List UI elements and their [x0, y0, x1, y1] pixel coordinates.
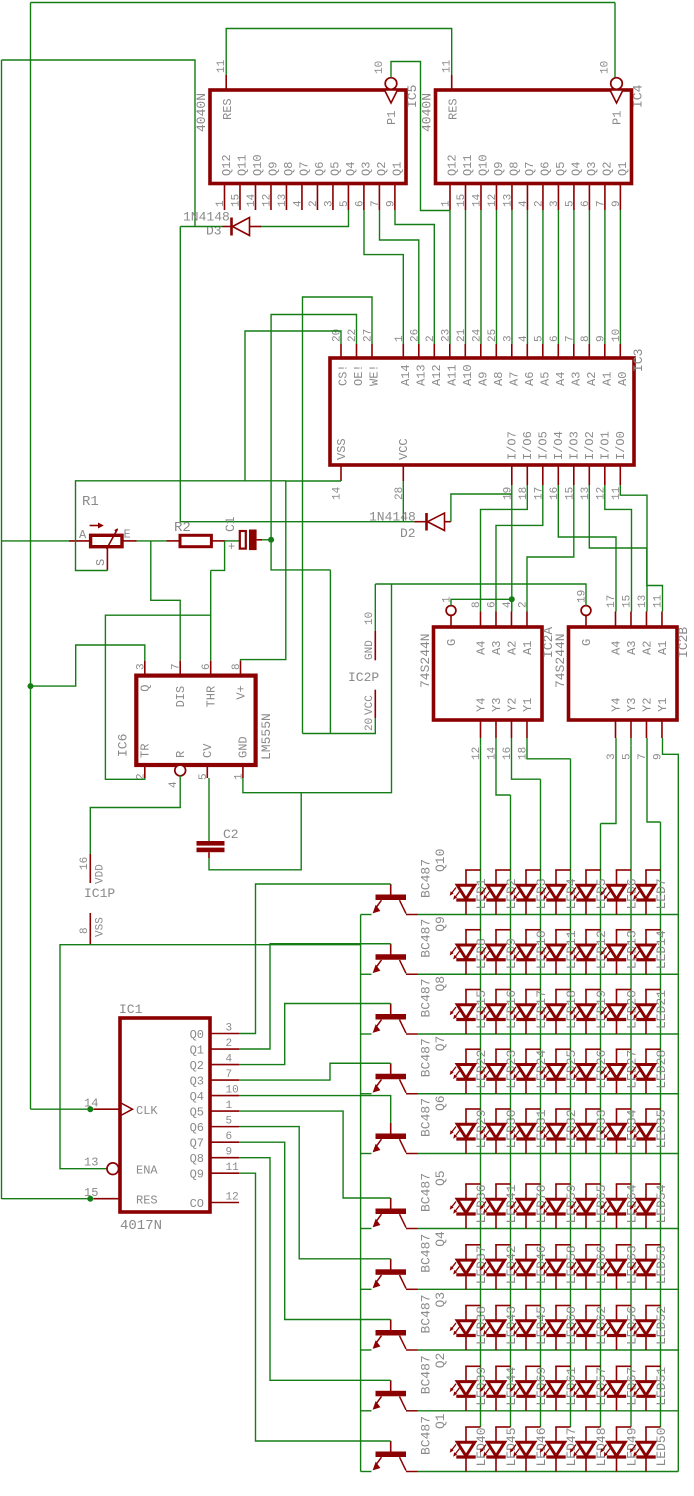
IC1 pin 15 (RES) [94, 1198, 121, 1200]
svg-text:28: 28 [394, 487, 406, 500]
IC3 pin 11 (IO0) [619, 465, 621, 485]
wire Y outputs of IC2A to LED columns [480, 738, 482, 745]
svg-text:RES: RES [447, 98, 461, 120]
IC2A pin 1 (G enable) with bubble [446, 606, 456, 616]
wire IC5 P1 clock from IC4 Q12 [391, 62, 450, 211]
svg-text:A2: A2 [505, 641, 519, 655]
svg-text:7: 7 [564, 335, 576, 342]
svg-text:Q4: Q4 [344, 162, 358, 176]
svg-text:LED60: LED60 [564, 1306, 579, 1345]
power IC1P VDD pin 16 [89, 854, 91, 883]
svg-text:LED33: LED33 [594, 1109, 609, 1148]
IC5 pin 3 (Q5) [332, 184, 334, 211]
wires IC4 Q12..Q1 to IC3 A11..A0 [449, 210, 451, 344]
svg-text:LED44: LED44 [504, 1367, 519, 1406]
svg-text:I/O6: I/O6 [521, 431, 535, 460]
IC3 pin 12 (IO1) [604, 465, 606, 485]
svg-text:LED48: LED48 [594, 1427, 609, 1466]
wire emitter of Q2 to bus [361, 1410, 372, 1412]
wire row 9 cathode bus [418, 1410, 679, 1412]
LED LED36 [465, 1184, 467, 1199]
svg-text:LED35: LED35 [654, 1109, 669, 1148]
svg-text:D3: D3 [206, 224, 222, 239]
IC3 pin 22 (OE!) [356, 344, 358, 358]
svg-text:LED36: LED36 [474, 1184, 489, 1223]
svg-text:R: R [174, 751, 188, 758]
svg-text:Q3: Q3 [190, 1074, 204, 1088]
IC5 pin P1 (10) clock with bubble [385, 78, 397, 90]
LED LED9 [495, 930, 497, 945]
svg-text:Q5: Q5 [433, 1170, 448, 1186]
svg-text:5: 5 [226, 1116, 233, 1128]
svg-text:LED53: LED53 [654, 1245, 669, 1284]
svg-text:LED34: LED34 [625, 1109, 640, 1148]
svg-text:BC487: BC487 [419, 1355, 434, 1394]
svg-text:Q8: Q8 [433, 976, 448, 992]
IC3 pin 6 (A4) [557, 344, 559, 358]
IC3 pin 5 (A5) [542, 344, 544, 358]
svg-text:LED64: LED64 [625, 1184, 640, 1223]
capacitor C1 polarized [240, 531, 246, 549]
IC3 pin 10 (A0) [619, 344, 621, 358]
LED LED52 [645, 1306, 647, 1321]
IC4 pin 15 (Q11) [464, 184, 466, 211]
IC5 pin 13 (Q8) [285, 184, 287, 211]
wire IC5 pin11 to IC4 pin11 [226, 29, 452, 76]
svg-text:Q12: Q12 [220, 154, 234, 176]
IC3 pin 21 (A10) [464, 344, 466, 358]
LED LED10 [525, 930, 527, 945]
svg-text:Q12: Q12 [446, 154, 460, 176]
transistor Q8 BC487 [390, 1004, 392, 1017]
svg-text:LED43: LED43 [504, 1306, 519, 1345]
svg-text:THR: THR [205, 686, 219, 708]
LED LED60 [555, 1306, 557, 1321]
svg-text:LED67: LED67 [625, 1367, 640, 1406]
svg-text:A8: A8 [492, 372, 506, 386]
svg-text:LED16: LED16 [504, 990, 519, 1029]
wire IC4 P1 from top rail [614, 3, 616, 78]
LED LED46 [525, 1427, 527, 1442]
IC2A pin 14 (Y3) [495, 720, 497, 738]
svg-text:LED21: LED21 [654, 990, 669, 1029]
svg-text:14: 14 [471, 193, 483, 207]
svg-text:9: 9 [226, 1147, 233, 1159]
svg-text:IC2B: IC2B [676, 627, 691, 658]
wire row 4 cathode bus [418, 1093, 679, 1095]
svg-text:IC2P: IC2P [348, 670, 379, 685]
svg-text:Q8: Q8 [282, 162, 296, 176]
svg-text:8: 8 [580, 335, 592, 342]
power IC2P VCC pin 20 [374, 690, 376, 718]
wire C2 bottom to GND line [209, 793, 301, 870]
svg-text:Y4: Y4 [474, 698, 488, 712]
IC IC5 4040N body [210, 90, 406, 184]
wire row 2 cathode bus [418, 973, 679, 975]
svg-text:Q2: Q2 [375, 162, 389, 176]
LED LED70 [525, 1184, 527, 1199]
LED LED44 [495, 1366, 497, 1381]
IC4 pin 12 (Q9) [495, 184, 497, 211]
IC3 pin 8 (A2) [588, 344, 590, 358]
LED LED42 [495, 1245, 497, 1260]
svg-text:5: 5 [564, 200, 576, 207]
svg-text:A7: A7 [507, 372, 521, 386]
power IC2P GND pin 10 [374, 584, 376, 631]
wire CLK net left vertical [30, 3, 32, 1110]
svg-text:Q2: Q2 [433, 1353, 448, 1369]
IC1 pin 4 (Q2) [210, 1064, 239, 1066]
LED LED33 [585, 1109, 587, 1124]
svg-text:Q6: Q6 [538, 162, 552, 176]
svg-text:10: 10 [226, 1085, 239, 1097]
LED LED38 [465, 1306, 467, 1321]
IC1 pin 5 (Q6) [210, 1126, 239, 1128]
LED LED17 [525, 990, 527, 1005]
IC5 pin 14 (Q10) [254, 184, 256, 211]
svg-text:A13: A13 [414, 364, 428, 386]
LED LED13 [616, 930, 618, 945]
svg-text:LED46: LED46 [534, 1427, 549, 1466]
svg-text:Q7: Q7 [433, 1036, 448, 1052]
svg-text:LED45: LED45 [534, 1306, 549, 1345]
svg-text:21: 21 [456, 328, 468, 342]
IC6 pin 2 (TR) [144, 765, 146, 778]
wire IC1 Q8 to row9 base [239, 1158, 391, 1381]
IC4 pin 13 (Q8) [511, 184, 513, 211]
IC1 pin 11 (Q9) [210, 1172, 239, 1174]
svg-text:DIS: DIS [174, 686, 188, 708]
svg-text:10: 10 [611, 329, 623, 342]
svg-text:LED69: LED69 [534, 1367, 549, 1406]
wire C1 to junction [262, 539, 271, 541]
IC2A pin 4 (A2) [510, 612, 512, 628]
svg-text:25: 25 [487, 329, 499, 342]
IC IC6 LM555N body [136, 676, 255, 765]
svg-text:LED22: LED22 [474, 1050, 489, 1089]
svg-text:BC487: BC487 [419, 1173, 434, 1212]
wire IC1 Q9 to row10 base [239, 1173, 391, 1441]
wire D2 anode up to IO7 net [451, 494, 512, 522]
wire RES net far-left vertical [1, 60, 3, 1199]
LED LED7 [645, 870, 647, 885]
wire LED column verticals [480, 745, 482, 1427]
IC4 pin 14 (Q10) [480, 184, 482, 211]
svg-text:LED13: LED13 [625, 930, 640, 969]
svg-text:BC487: BC487 [419, 1098, 434, 1137]
wire Y outputs of IC2B to LED columns [601, 738, 617, 824]
svg-text:10: 10 [374, 61, 386, 74]
wire 555 CV to C2 [208, 778, 210, 841]
svg-text:1N4148: 1N4148 [369, 510, 416, 525]
wire R2 to C1 [225, 540, 240, 542]
IC1 pin 6 (Q7) [210, 1141, 239, 1143]
IC2B pin 11 (A1) [661, 612, 663, 628]
svg-text:Y1: Y1 [521, 698, 535, 712]
svg-text:C2: C2 [223, 827, 239, 842]
svg-text:Y2: Y2 [640, 698, 654, 712]
svg-text:16: 16 [79, 857, 91, 870]
wire R1R2 junction to 555 DIS [151, 541, 180, 661]
svg-text:A1: A1 [656, 641, 670, 655]
svg-text:5: 5 [533, 335, 545, 342]
svg-text:3: 3 [135, 663, 147, 670]
svg-text:Q3: Q3 [433, 1292, 448, 1308]
LED LED65 [585, 1184, 587, 1199]
transistor Q1 BC487 [390, 1441, 392, 1454]
LED LED26 [585, 1049, 587, 1064]
LED LED37 [465, 1245, 467, 1260]
IC4 pin 3 (Q5) [557, 184, 559, 211]
capacitor C2 [197, 841, 225, 846]
IC4 pin 7 (Q2) [604, 184, 606, 211]
svg-text:LED40: LED40 [474, 1427, 489, 1466]
LED LED25 [555, 1049, 557, 1064]
IC3 pin 13 (IO2) [588, 465, 590, 485]
svg-text:Q0: Q0 [190, 1028, 204, 1042]
svg-text:WE!: WE! [368, 364, 382, 386]
svg-text:Q5: Q5 [190, 1105, 204, 1119]
LED LED46 [525, 1245, 527, 1260]
IC2A pin 8 (A4) [480, 612, 482, 628]
svg-text:A12: A12 [430, 364, 444, 386]
svg-text:VCC: VCC [397, 438, 411, 460]
LED LED18 [555, 990, 557, 1005]
svg-text:Q6: Q6 [313, 162, 327, 176]
svg-text:BC487: BC487 [419, 1294, 434, 1333]
LED LED8 [465, 930, 467, 945]
svg-text:LED61: LED61 [564, 1367, 579, 1406]
IC3 pin 16 (IO4) [557, 465, 559, 485]
wire row 3 cathode bus [418, 1033, 679, 1035]
transistor Q5 BC487 [390, 1198, 392, 1211]
svg-text:2: 2 [308, 200, 320, 207]
IC4 pin 6 (Q3) [588, 184, 590, 211]
LED LED6 [616, 870, 618, 885]
LED LED47 [555, 1427, 557, 1442]
wire R1 E to R2 [137, 540, 167, 542]
svg-text:4: 4 [226, 1054, 233, 1066]
IC6 pin 8 (V+) [240, 661, 242, 676]
IC3 pin 14 (VSS) [340, 465, 342, 481]
wire IC1 Q2 to row3 base [239, 1004, 391, 1065]
IC2B pin 5 (Y3) [630, 720, 632, 738]
wire RES net top segment [2, 60, 196, 227]
svg-text:I/O3: I/O3 [568, 431, 582, 460]
svg-text:IC1: IC1 [119, 1002, 143, 1017]
svg-text:LED59: LED59 [564, 1184, 579, 1223]
svg-text:Q9: Q9 [266, 162, 280, 176]
transistor Q10 BC487 [390, 884, 392, 897]
svg-text:BC487: BC487 [419, 1416, 434, 1455]
svg-text:2: 2 [425, 335, 437, 342]
LED LED22 [465, 1049, 467, 1064]
LED LED58 [555, 1245, 557, 1260]
svg-text:LED30: LED30 [504, 1109, 519, 1148]
IC4 pin RES (11) [451, 75, 453, 90]
svg-text:R2: R2 [174, 520, 191, 536]
wire IC2P VCC to GND rail [303, 718, 376, 734]
svg-text:Q2: Q2 [600, 162, 614, 176]
svg-text:Q6: Q6 [190, 1121, 204, 1135]
svg-text:Q7: Q7 [523, 162, 537, 176]
IC IC4 4040N body [436, 90, 632, 184]
wire IC5 Q4 to D3 anode [260, 210, 349, 227]
IC IC1 4017N body [120, 1018, 210, 1212]
svg-text:LED58: LED58 [564, 1245, 579, 1284]
LED LED30 [495, 1109, 497, 1124]
IC2A pin 2 (A1) [526, 612, 528, 628]
svg-text:1: 1 [226, 1100, 233, 1112]
svg-text:7: 7 [595, 200, 607, 207]
svg-text:LED50: LED50 [654, 1427, 669, 1466]
svg-text:LED7: LED7 [654, 878, 669, 909]
IC3 pin 28 (VCC) [402, 465, 404, 481]
svg-text:23: 23 [440, 329, 452, 342]
wire IC2P left branch [329, 570, 331, 734]
LED LED61 [555, 1366, 557, 1381]
svg-text:IC6: IC6 [116, 734, 131, 757]
svg-text:LED39: LED39 [474, 1367, 489, 1406]
svg-text:12: 12 [471, 747, 483, 760]
wire emitter of Q5 to bus [361, 1228, 372, 1230]
wire IC1 Q7 to row8 base [239, 1142, 391, 1319]
svg-text:Q10: Q10 [251, 154, 265, 176]
wire IC3 OE! down-left [271, 315, 356, 570]
IC2B pin 19 (G enable) with bubble [581, 606, 591, 616]
svg-text:11: 11 [226, 1162, 240, 1174]
svg-text:LED38: LED38 [474, 1306, 489, 1345]
IC5 pin 4 (Q7) [301, 184, 303, 211]
LED LED35 [645, 1109, 647, 1124]
svg-text:9: 9 [611, 200, 623, 207]
svg-text:Q4: Q4 [569, 162, 583, 176]
svg-text:14: 14 [332, 486, 344, 500]
svg-text:CLK: CLK [136, 1104, 158, 1118]
svg-text:LED28: LED28 [654, 1050, 669, 1089]
LED LED50 [645, 1427, 647, 1442]
IC1 pin 1 (Q5) [210, 1110, 239, 1112]
LED LED49 [616, 1427, 618, 1442]
wire R1 S wiper to V+ line [76, 481, 286, 571]
svg-text:Q6: Q6 [433, 1095, 448, 1111]
svg-text:A4: A4 [474, 641, 488, 655]
svg-text:14: 14 [246, 193, 258, 207]
svg-text:1N4148: 1N4148 [183, 210, 230, 225]
svg-text:26: 26 [409, 329, 421, 342]
IC5 pin RES (11) [225, 75, 227, 90]
wire row 6 cathode bus [418, 1228, 679, 1230]
IC1 pin 2 (Q1) [210, 1048, 239, 1050]
wire emitter of Q4 to bus [361, 1288, 372, 1290]
LED LED67 [616, 1366, 618, 1381]
svg-text:4: 4 [518, 200, 530, 207]
LED LED62 [585, 1306, 587, 1321]
LED LED21 [645, 990, 647, 1005]
svg-text:6: 6 [580, 200, 592, 207]
LED LED16 [495, 990, 497, 1005]
LED LED45 [525, 1306, 527, 1321]
svg-text:LED45: LED45 [504, 1427, 519, 1466]
IC6 pin 5 (CV) [206, 765, 208, 778]
LED LED5 [585, 870, 587, 885]
svg-text:RES: RES [136, 1194, 158, 1208]
LED LED45 [495, 1427, 497, 1442]
wire C1 node to 555 THR [210, 570, 212, 660]
svg-text:13: 13 [502, 194, 514, 207]
svg-text:I/O7: I/O7 [506, 431, 520, 460]
transistor Q4 BC487 [390, 1259, 392, 1272]
LED LED29 [465, 1109, 467, 1124]
wire 555 GND to G2 net [243, 584, 392, 793]
wire VSS rail [60, 945, 109, 1169]
IC1 pin 10 (Q4) [210, 1095, 239, 1097]
IC IC3 body (RAM) [330, 358, 634, 465]
svg-text:2: 2 [533, 200, 545, 207]
svg-text:12: 12 [226, 1192, 239, 1204]
IC6 pin 7 (DIS) [179, 661, 181, 676]
LED LED40 [465, 1427, 467, 1442]
IC1 pin 13 (ENA) with bubble [107, 1163, 119, 1175]
wire IO2 to IC2B A1 [589, 485, 662, 612]
svg-text:6: 6 [226, 1131, 233, 1143]
IC3 pin 24 (A9) [480, 344, 482, 358]
IC1 pin 3 (Q0) [210, 1033, 239, 1035]
transistor Q6 BC487 [390, 1123, 392, 1136]
wire IC5 Q1 to IC3 A12 [395, 210, 434, 344]
svg-text:RES: RES [221, 98, 235, 120]
svg-text:I/O2: I/O2 [583, 431, 597, 460]
svg-text:Q10: Q10 [433, 849, 448, 872]
svg-text:BC487: BC487 [419, 1234, 434, 1273]
svg-text:A4: A4 [554, 372, 568, 386]
svg-text:A14: A14 [399, 364, 413, 386]
wire RES net to IC1 [2, 1198, 89, 1200]
IC2B pin 9 (Y1) [661, 720, 663, 738]
LED LED15 [465, 990, 467, 1005]
LED LED59 [555, 1184, 557, 1199]
svg-text:1: 1 [394, 335, 406, 342]
svg-text:LED12: LED12 [594, 930, 609, 969]
potentiometer R1 [91, 535, 122, 546]
LED LED34 [616, 1109, 618, 1124]
svg-text:Y3: Y3 [490, 698, 504, 712]
svg-text:Q1: Q1 [616, 162, 630, 176]
LED LED53 [645, 1245, 647, 1260]
IC5 pin 15 (Q11) [239, 184, 241, 211]
junction G1-IO7 [509, 596, 515, 602]
IC6 pin 1 (GND) [242, 765, 244, 778]
svg-text:BC487: BC487 [419, 1038, 434, 1077]
svg-text:LED63: LED63 [625, 1245, 640, 1284]
IC4 pin 5 (Q4) [573, 184, 575, 211]
svg-text:LED29: LED29 [474, 1109, 489, 1148]
svg-text:24: 24 [471, 328, 483, 342]
svg-text:10: 10 [364, 612, 376, 625]
svg-text:2: 2 [135, 773, 147, 780]
svg-text:LED18: LED18 [564, 990, 579, 1029]
svg-text:2: 2 [226, 1038, 233, 1050]
IC3 pin 18 (IO6) [526, 465, 528, 485]
LED LED32 [555, 1109, 557, 1124]
LED LED11 [555, 930, 557, 945]
IC2B pin 7 (Y2) [645, 720, 647, 738]
LED LED57 [585, 1366, 587, 1381]
IC3 pin 23 (A11) [449, 344, 451, 358]
IC2A pin 16 (Y2) [510, 720, 512, 738]
wire row 8 cathode bus [418, 1349, 679, 1351]
svg-text:Q1: Q1 [433, 1413, 448, 1429]
